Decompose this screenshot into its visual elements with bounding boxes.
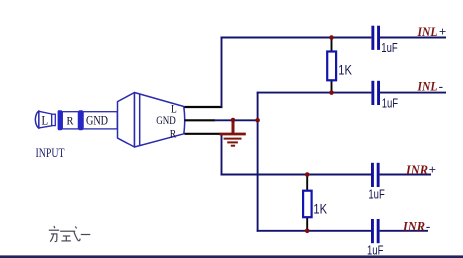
ground symbol xyxy=(219,120,245,146)
wire: INL+ rail right of cap xyxy=(380,37,446,39)
svg-text:1K: 1K xyxy=(338,62,352,77)
wire: INR- rail xyxy=(257,230,371,232)
capacitor C4 plates xyxy=(371,219,374,243)
一 xyxy=(81,234,91,236)
wire: GND vertical bus xyxy=(257,92,259,232)
svg-text:R: R xyxy=(170,127,177,141)
junction dot R2 top xyxy=(305,172,310,177)
svg-text:1uF: 1uF xyxy=(368,188,385,202)
svg-text:INL: INL xyxy=(417,79,438,94)
svg-text:INR: INR xyxy=(405,162,428,177)
wire: INL- rail xyxy=(257,92,372,94)
caption 方式一 (drawn strokes) xyxy=(49,226,91,242)
capacitor C2 plates xyxy=(371,81,374,105)
wire: R vertical drop xyxy=(221,134,223,176)
capacitor C1 plates xyxy=(371,26,374,50)
svg-text:INPUT: INPUT xyxy=(36,146,65,160)
wire: GND pin stub (black) xyxy=(185,119,216,121)
wire: INR- rail right of cap xyxy=(380,230,428,232)
resistor R2 stems xyxy=(306,175,308,192)
junction dot GND/bus xyxy=(255,118,260,123)
junction dot R2 bottom xyxy=(305,229,310,234)
resistor R1 stems xyxy=(331,38,333,53)
junction dot GND/ground xyxy=(231,118,236,123)
svg-text:-: - xyxy=(439,79,443,94)
jack housing funnel xyxy=(118,93,135,148)
svg-text:INR: INR xyxy=(402,218,425,233)
audio jack J1 plug tip nose xyxy=(35,111,39,128)
jack ring section R xyxy=(62,112,78,129)
svg-text:L: L xyxy=(42,114,49,128)
wire: L pin stub (black) xyxy=(185,106,223,108)
resistor R1 body xyxy=(327,52,336,81)
式 xyxy=(60,230,75,232)
resistor R2 body xyxy=(303,191,312,218)
方 xyxy=(53,226,56,228)
jack sleeve GND xyxy=(83,112,117,129)
wire: INR+ rail xyxy=(221,174,371,176)
svg-text:+: + xyxy=(439,24,446,39)
capacitor C3 plates xyxy=(371,163,374,187)
wire: R pin stub (black) xyxy=(185,133,221,135)
jack tip body xyxy=(39,111,52,128)
svg-text:R: R xyxy=(67,114,74,128)
svg-text:1uF: 1uF xyxy=(382,97,399,111)
junction dot R1 top xyxy=(329,35,334,40)
bottom border line xyxy=(0,255,463,258)
wire: INL- rail right of cap xyxy=(380,92,446,94)
svg-text:1K: 1K xyxy=(313,201,327,216)
wire: GND horizontal (navy) xyxy=(214,119,259,121)
svg-text:GND: GND xyxy=(156,113,176,127)
jack housing body xyxy=(135,93,185,148)
wire: INL+ rail xyxy=(221,37,372,39)
jack tip neck xyxy=(52,114,56,125)
svg-text:+: + xyxy=(429,162,436,177)
jack housing ring line xyxy=(139,94,141,146)
wire: INR+ rail right of cap xyxy=(380,174,431,176)
svg-text:-: - xyxy=(426,218,430,233)
svg-text:INL: INL xyxy=(417,24,438,39)
junction dot R1 bottom xyxy=(329,90,334,95)
jack tip band 1 xyxy=(58,110,63,130)
svg-text:1uF: 1uF xyxy=(381,41,398,55)
svg-text:GND: GND xyxy=(86,113,108,128)
wire: L vertical riser xyxy=(221,37,223,108)
jack band 2 xyxy=(78,110,83,130)
